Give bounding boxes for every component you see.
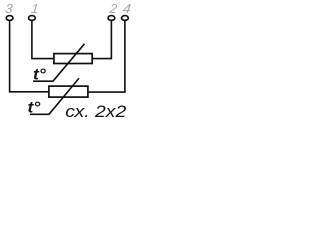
- terminal 1: [29, 16, 36, 21]
- svg-text:t°: t°: [33, 66, 47, 83]
- wire terminal 4 to R2 right: [88, 21, 125, 92]
- resistor R1 body: [54, 54, 92, 64]
- resistor R2 temperature diagonal with tail: [30, 78, 79, 114]
- terminal 4: [122, 16, 129, 21]
- resistor R2 body: [49, 86, 88, 97]
- resistor R1 temperature diagonal with tail: [33, 44, 85, 81]
- wire terminal 2 to R1 right: [92, 21, 111, 59]
- terminal 3: [6, 16, 13, 21]
- terminal 2: [108, 16, 115, 21]
- wire terminal 1 to R1 left: [32, 21, 54, 59]
- svg-text:t°: t°: [28, 99, 42, 116]
- background: [0, 0, 135, 119]
- svg-text:сх. 2х2: сх. 2х2: [65, 103, 126, 119]
- wire terminal 3 to R2 left: [10, 21, 49, 92]
